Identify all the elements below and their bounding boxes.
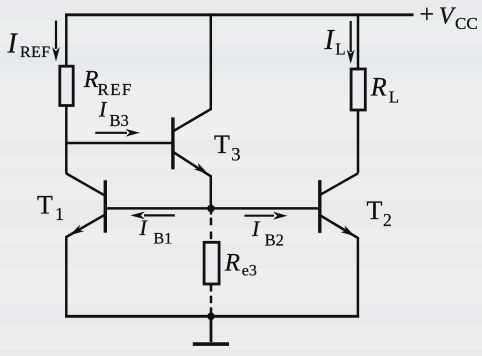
svg-text:1: 1 <box>55 204 64 224</box>
resistor R_L <box>351 69 365 110</box>
svg-text:+: + <box>420 0 435 29</box>
wire: VCC rail down to R_REF <box>65 13 68 68</box>
label I_L <box>324 25 346 59</box>
wire: T1 base to T2 base rail <box>105 207 319 210</box>
current arrow I_B1 <box>130 212 174 220</box>
label R_REF <box>83 67 133 99</box>
current arrow I_REF <box>52 21 60 62</box>
label I_B2 <box>251 216 284 249</box>
label I_B1 <box>139 215 173 247</box>
transistor T2 <box>320 173 358 238</box>
dashed wire: R_e3 down to ground node <box>210 284 213 314</box>
svg-text:R: R <box>370 73 387 102</box>
wire: node to T3 base <box>65 142 172 145</box>
svg-text:I: I <box>324 25 336 56</box>
current arrow I_L <box>347 21 355 64</box>
resistor R_e3 <box>204 242 219 284</box>
svg-text:R: R <box>83 67 99 93</box>
node: junction dot at T3 emitter / base rail <box>207 205 215 213</box>
label I_REF <box>7 29 51 62</box>
label I_B3 <box>98 96 129 130</box>
wire: R_REF down to T1 collector bend <box>65 106 68 175</box>
svg-text:CC: CC <box>455 14 478 33</box>
dashed wire: node down to R_e3 <box>210 211 213 242</box>
wire: T3 collector up to VCC rail <box>210 13 213 110</box>
svg-text:B1: B1 <box>154 231 173 248</box>
label T2 <box>367 196 392 230</box>
svg-text:T: T <box>214 130 230 159</box>
svg-text:T: T <box>367 196 383 225</box>
label R_L <box>370 73 399 107</box>
svg-text:T: T <box>37 190 53 219</box>
current arrow I_B3 <box>95 129 140 137</box>
wire: R_L down to T2 collector bend <box>357 110 360 173</box>
current arrow I_B2 <box>244 212 287 220</box>
svg-text:I: I <box>7 29 19 60</box>
wire: T1 emitter down to bottom rail <box>65 236 68 316</box>
svg-text:B2: B2 <box>265 231 284 250</box>
label T1 <box>37 190 64 224</box>
wire: T3 emitter down to base node <box>210 176 213 209</box>
label +VCC <box>420 0 478 33</box>
svg-text:REF: REF <box>20 44 51 61</box>
wire: T2 emitter down to bottom rail <box>357 237 360 316</box>
svg-text:2: 2 <box>383 210 392 230</box>
svg-text:R: R <box>224 250 240 277</box>
transistor T3 <box>173 109 211 176</box>
svg-text:3: 3 <box>231 146 240 166</box>
label R_e3 <box>224 250 257 280</box>
wire: top VCC rail <box>65 13 414 16</box>
ground <box>193 316 229 344</box>
svg-text:L: L <box>389 88 399 107</box>
svg-text:e3: e3 <box>242 262 257 279</box>
label T3 <box>214 130 241 166</box>
transistor T1 <box>66 174 105 238</box>
svg-text:B3: B3 <box>110 111 129 130</box>
svg-text:L: L <box>335 40 345 59</box>
resistor R_REF <box>60 66 73 105</box>
node: ground junction dot <box>207 313 215 321</box>
wire: bottom rail <box>65 315 359 318</box>
wire: VCC rail down to R_L <box>357 13 360 70</box>
